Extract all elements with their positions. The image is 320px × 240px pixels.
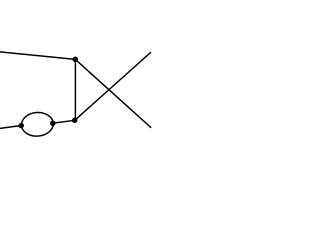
node N2: loop right vertex dot [50, 120, 56, 126]
wire W4: vertical internal propagator [74, 59, 76, 120]
node V1: upper vertex dot [73, 57, 79, 63]
wire W5: segment from loop right node to lower vertex [53, 120, 74, 123]
wire W2: external line from upper vertex down-right [75, 59, 151, 127]
wire W6: bottom-left external line [0, 126, 22, 129]
loop L1: self-energy bubble (rotated ellipse) [21, 111, 54, 137]
node V2: lower vertex dot [72, 118, 78, 124]
wire W3: external line from lower vertex up-right (crosses W2) [75, 52, 151, 120]
wire W1: top-left external line [0, 52, 75, 60]
node N1: loop left vertex dot [18, 123, 24, 129]
